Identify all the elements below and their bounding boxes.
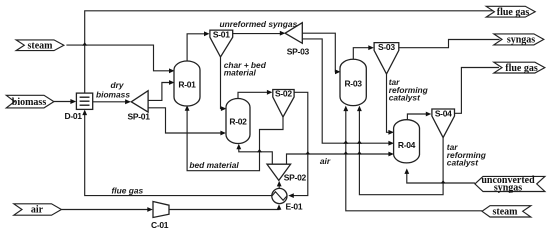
svg-text:R-03: R-03 <box>344 78 362 88</box>
svg-text:bed material: bed material <box>189 160 239 170</box>
svg-text:R-01: R-01 <box>178 79 196 89</box>
svg-text:catalyst: catalyst <box>447 158 479 168</box>
svg-text:S-04: S-04 <box>435 109 452 119</box>
svg-text:C-01: C-01 <box>151 220 169 230</box>
svg-text:flue gas: flue gas <box>497 7 530 18</box>
svg-text:R-02: R-02 <box>229 116 247 126</box>
svg-text:biomass: biomass <box>96 90 130 100</box>
svg-text:S-01: S-01 <box>213 30 230 40</box>
svg-text:syngas: syngas <box>507 35 535 46</box>
svg-text:syngas: syngas <box>494 183 522 194</box>
svg-text:material: material <box>224 68 257 78</box>
svg-text:S-02: S-02 <box>275 89 292 99</box>
svg-text:flue gas: flue gas <box>112 186 144 196</box>
svg-text:dry: dry <box>110 80 123 90</box>
svg-text:flue gas: flue gas <box>505 63 538 74</box>
svg-text:steam: steam <box>28 40 54 51</box>
svg-text:air: air <box>31 205 44 216</box>
svg-text:S-03: S-03 <box>378 42 395 52</box>
svg-text:D-01: D-01 <box>65 111 83 121</box>
svg-text:catalyst: catalyst <box>389 93 421 103</box>
svg-text:SP-03: SP-03 <box>287 47 310 57</box>
svg-text:biomass: biomass <box>12 97 47 108</box>
svg-text:E-01: E-01 <box>286 202 303 212</box>
svg-text:SP-02: SP-02 <box>284 173 307 183</box>
svg-text:steam: steam <box>493 206 519 217</box>
svg-text:air: air <box>320 156 331 166</box>
svg-text:R-04: R-04 <box>398 140 416 150</box>
svg-text:unreformed syngas: unreformed syngas <box>220 19 298 29</box>
svg-text:SP-01: SP-01 <box>128 112 151 122</box>
